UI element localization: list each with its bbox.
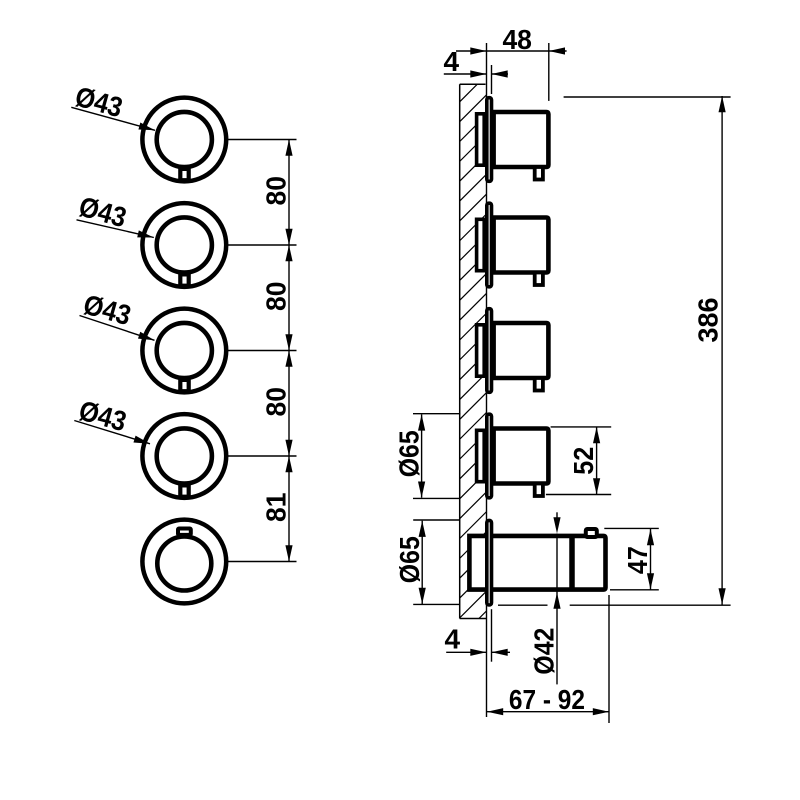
svg-text:80: 80: [260, 387, 291, 417]
svg-text:Ø65: Ø65: [394, 430, 425, 477]
svg-text:47: 47: [622, 546, 653, 574]
svg-text:81: 81: [260, 493, 291, 523]
svg-text:4: 4: [445, 624, 461, 655]
svg-text:80: 80: [260, 282, 291, 312]
svg-text:Ø65: Ø65: [394, 536, 425, 583]
svg-text:80: 80: [260, 176, 291, 206]
svg-text:4: 4: [444, 46, 460, 77]
svg-text:48: 48: [502, 24, 532, 55]
svg-text:386: 386: [693, 298, 724, 343]
svg-text:52: 52: [568, 447, 599, 475]
svg-text:67 - 92: 67 - 92: [509, 684, 585, 715]
svg-text:Ø42: Ø42: [529, 628, 560, 675]
